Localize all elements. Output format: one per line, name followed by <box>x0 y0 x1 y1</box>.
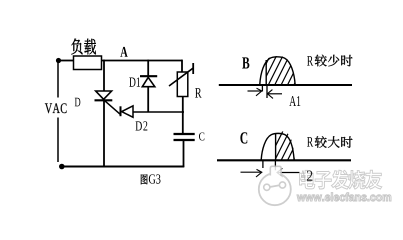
watermark logo circle <box>259 173 291 205</box>
waveform C axis <box>217 159 351 161</box>
resistor R adjust arrow T-bar <box>192 63 194 74</box>
waveform C dim arrow right <box>277 172 299 174</box>
wire D1 branch top <box>147 60 149 76</box>
watermark text www.elecfans.com <box>297 193 391 201</box>
wire thyristor branch bottom <box>103 100 105 167</box>
waveform C hatching <box>268 129 316 161</box>
wire left rail upper (VAC) <box>57 63 59 98</box>
waveform C delay tick right <box>274 161 276 170</box>
diode D1 triangle <box>142 77 155 86</box>
node top-left junction dot <box>56 58 61 63</box>
label A1 (delay angle) <box>289 96 300 106</box>
node A label <box>120 47 127 57</box>
waveform B delay tick right <box>266 86 268 98</box>
resistor R box (variable) <box>177 72 188 97</box>
waveform B dim arrow right <box>268 93 282 95</box>
label R较大时 <box>307 137 313 146</box>
wire left rail lower <box>57 118 59 163</box>
waveform B dim arrow left <box>248 90 262 92</box>
thyristor D cathode bar <box>95 99 113 101</box>
wire top from node to load resistor <box>58 60 74 62</box>
label VAC source <box>45 103 67 113</box>
waveform B hatching <box>255 54 309 86</box>
resistor 负载 load box <box>74 56 102 70</box>
wire D1 branch bottom to D2 wire junction <box>147 87 149 112</box>
waveform B delay tick left <box>261 86 263 92</box>
wire gate diagonal to D2 <box>105 101 121 115</box>
wire from D2 to right branch <box>133 111 184 113</box>
watermark logo node left <box>264 184 270 190</box>
watermark logo tab <box>270 166 281 175</box>
diode D1 cathode bar <box>140 75 157 77</box>
wire bottom rail <box>62 166 185 168</box>
label D2 <box>135 121 147 130</box>
label R <box>195 88 201 97</box>
label B (waveform) <box>242 57 249 68</box>
label D (thyristor) <box>75 98 81 107</box>
diode D2 triangle <box>122 106 133 118</box>
waveform C sine hump outline <box>261 133 294 159</box>
label R较少时 <box>307 56 313 65</box>
watermark text 电子发烧友 <box>299 170 381 189</box>
label A2 (delay angle) <box>300 170 307 180</box>
waveform C firing edge vertical <box>275 134 277 160</box>
waveform C dim arrow left <box>241 171 262 173</box>
waveform B firing edge vertical <box>265 60 267 85</box>
wire thyristor branch top <box>103 60 105 91</box>
wire corner down to R <box>181 60 183 72</box>
label C (waveform) <box>240 132 247 143</box>
resistor R adjust arrow diagonal <box>169 68 193 86</box>
capacitor C bottom plate <box>174 139 195 141</box>
capacitor C top plate <box>174 133 195 135</box>
wire capacitor bottom to bottom rail <box>183 140 185 167</box>
waveform B axis <box>219 84 352 86</box>
wire top from load box to node A and corner <box>102 60 183 62</box>
waveform B sine hump outline <box>260 57 295 85</box>
diode D2 cathode bar <box>120 106 122 116</box>
waveform C delay tick left <box>262 161 264 168</box>
watermark logo link line <box>267 185 282 188</box>
node bottom-left junction dot <box>59 164 65 170</box>
watermark logo group <box>259 166 291 205</box>
watermark logo node right <box>279 182 285 188</box>
thyristor D triangle <box>96 91 112 99</box>
label D1 <box>129 77 140 86</box>
label C (capacitor) <box>199 132 204 140</box>
label 图G3 (figure caption) <box>141 174 148 184</box>
wire R box bottom through junction to capacitor <box>182 97 184 134</box>
label 负载 (load) <box>71 39 82 55</box>
